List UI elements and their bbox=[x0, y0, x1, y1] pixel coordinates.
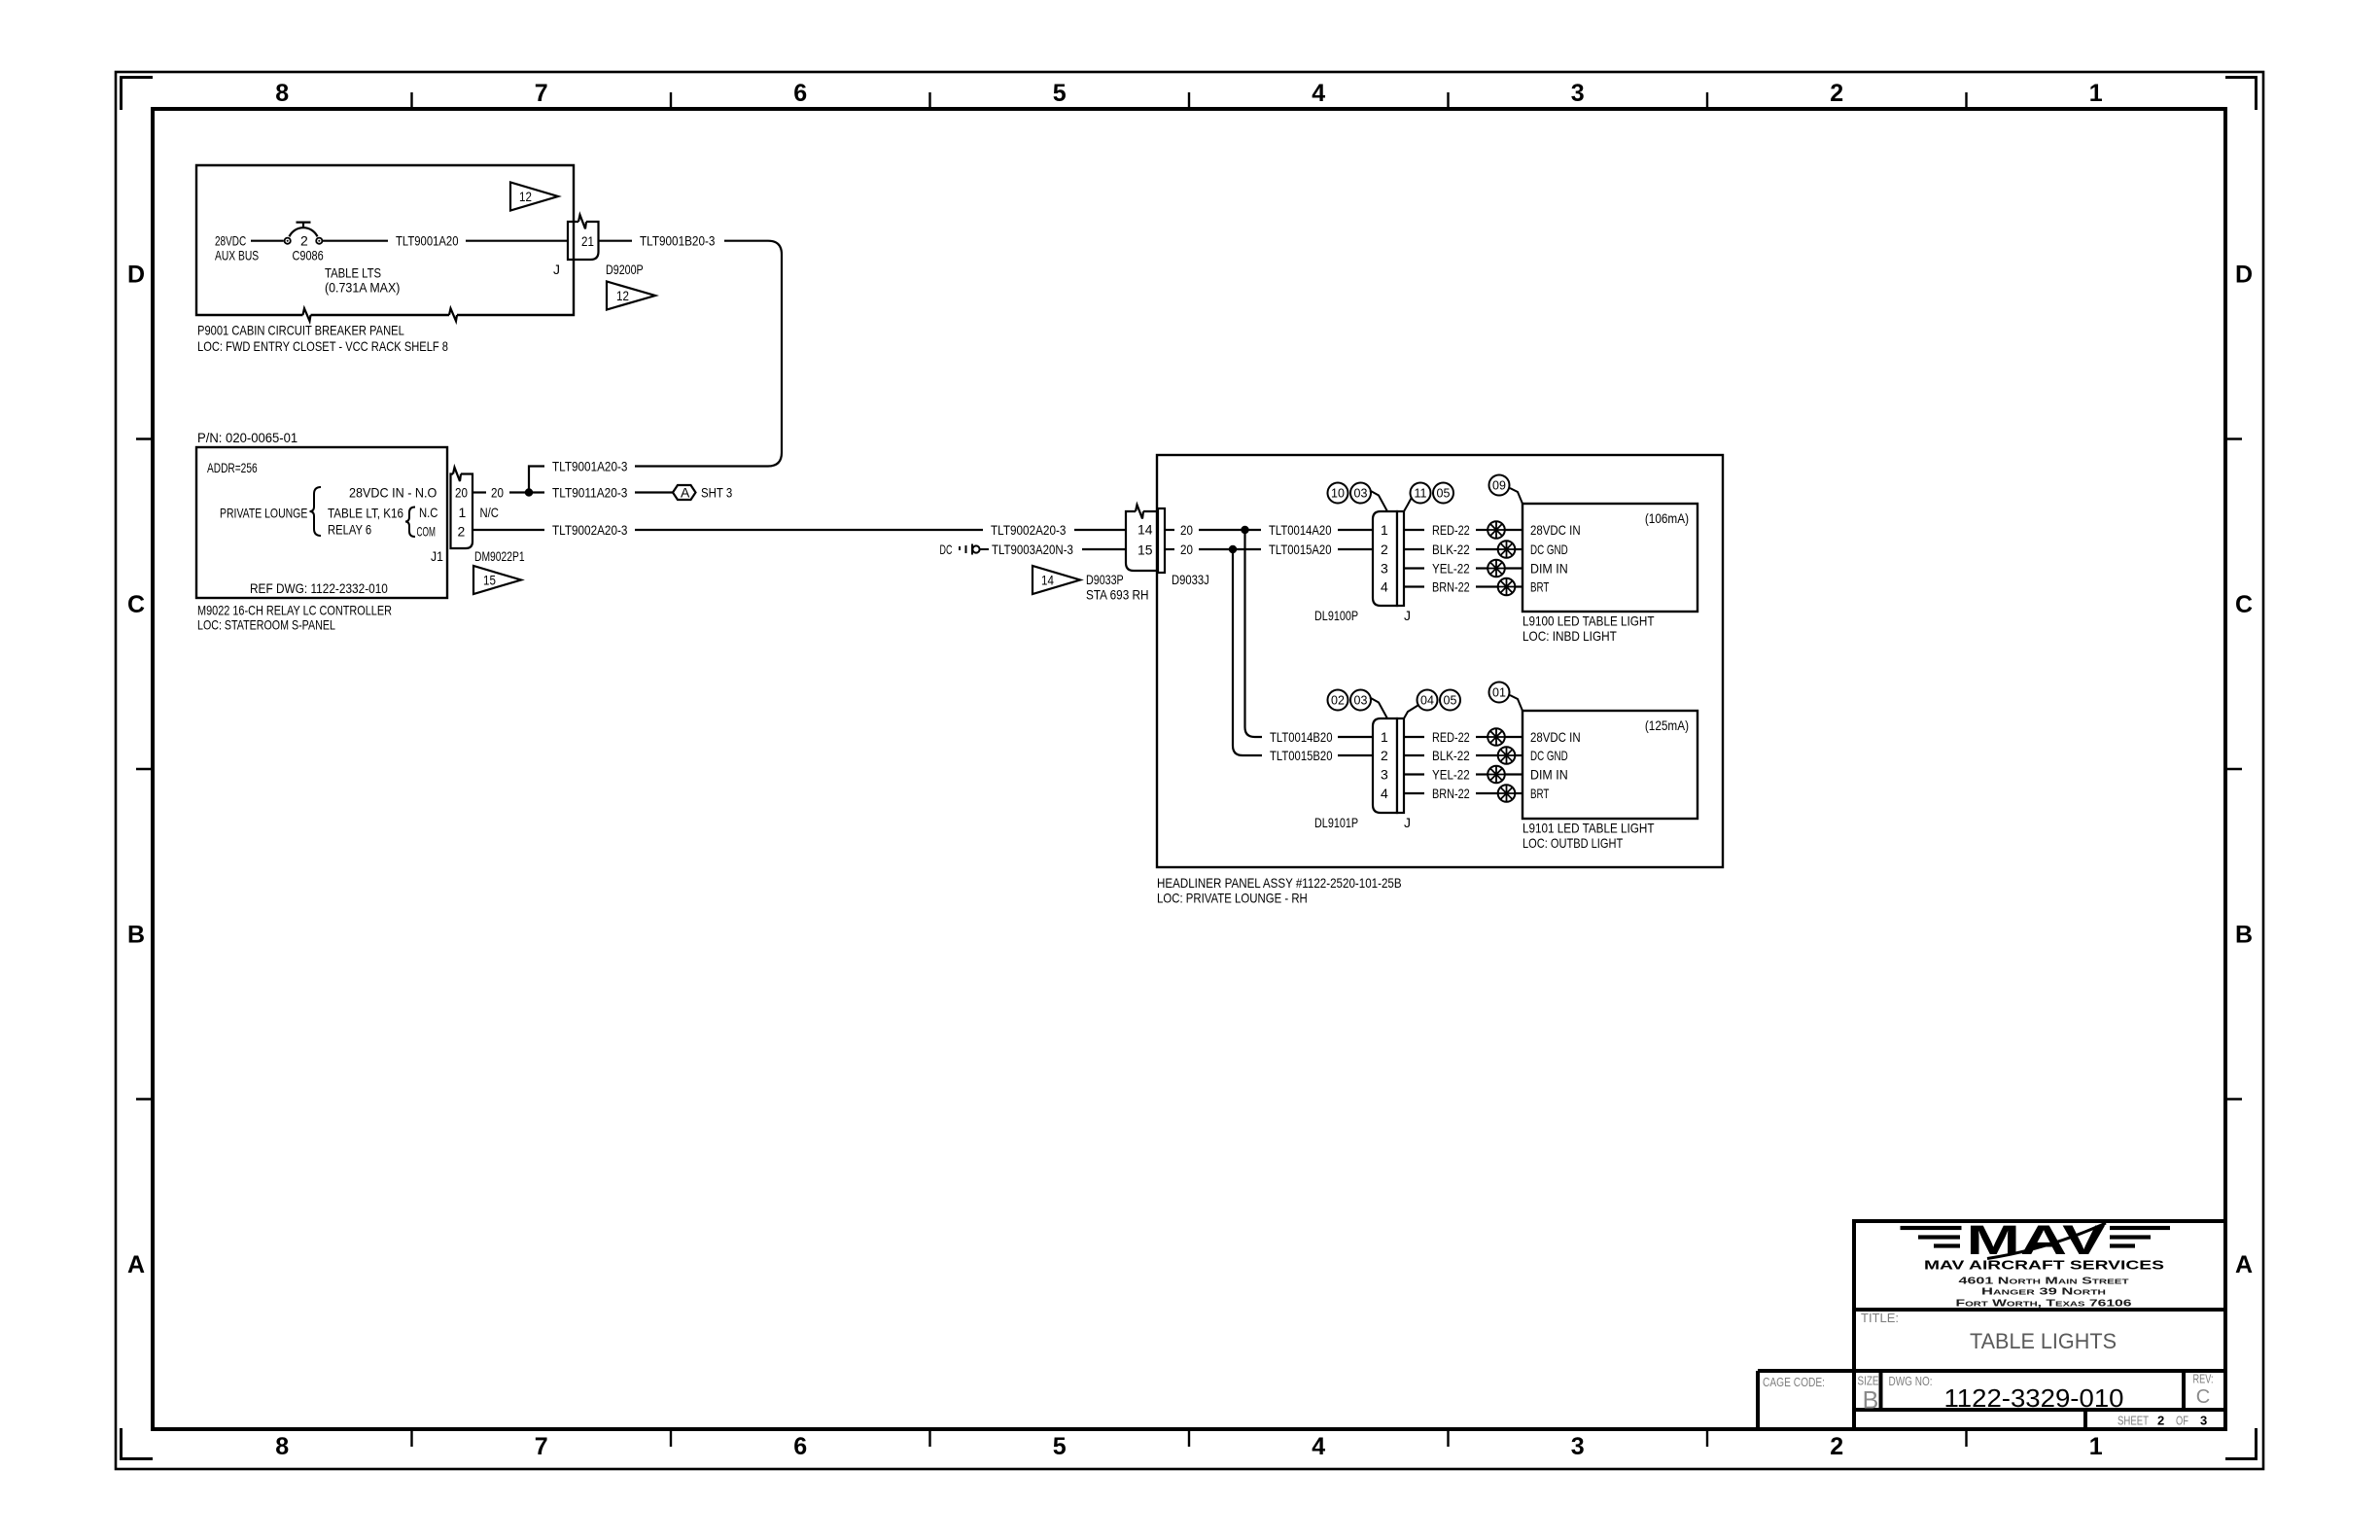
svg-text:20: 20 bbox=[1180, 542, 1193, 557]
svg-text:4: 4 bbox=[1312, 1433, 1325, 1460]
svg-text:TLT9003A20N-3: TLT9003A20N-3 bbox=[992, 542, 1073, 557]
svg-text:7: 7 bbox=[535, 1433, 548, 1460]
svg-text:6: 6 bbox=[793, 1433, 807, 1460]
svg-text:YEL-22: YEL-22 bbox=[1432, 767, 1470, 783]
svg-text:01: 01 bbox=[1492, 686, 1506, 700]
svg-text:1: 1 bbox=[2089, 1433, 2103, 1460]
svg-text:12: 12 bbox=[519, 189, 532, 204]
wire TLT9002A20-3 from pin 2 bbox=[472, 529, 1126, 531]
svg-text:C: C bbox=[2235, 591, 2253, 618]
svg-text:02: 02 bbox=[1331, 694, 1345, 708]
connector jag D9033P bbox=[1136, 505, 1143, 518]
zone ticks right bbox=[2225, 439, 2242, 1100]
wire TLT0014B20 drop bbox=[1245, 530, 1263, 737]
sheet flag 12 (lower) bbox=[607, 282, 655, 310]
wire id circle 09 bbox=[1489, 475, 1510, 496]
inner border frame bbox=[153, 109, 2225, 1429]
svg-text:J: J bbox=[553, 262, 560, 277]
splice on BLK-22 bbox=[1498, 747, 1516, 764]
svg-text:15: 15 bbox=[483, 573, 496, 588]
svg-text:LOC: PRIVATE LOUNGE - RH: LOC: PRIVATE LOUNGE - RH bbox=[1157, 891, 1308, 906]
svg-text:D9033J: D9033J bbox=[1172, 572, 1209, 587]
svg-text:DIM IN: DIM IN bbox=[1530, 767, 1568, 783]
wire id circle 02 bbox=[1328, 690, 1348, 711]
svg-text:14: 14 bbox=[1137, 522, 1153, 538]
svg-text:TITLE:: TITLE: bbox=[1861, 1311, 1899, 1325]
svg-text:J1: J1 bbox=[431, 548, 443, 564]
svg-text:28VDC IN - N.O: 28VDC IN - N.O bbox=[349, 485, 437, 501]
svg-text:3: 3 bbox=[1381, 767, 1388, 783]
svg-text:4: 4 bbox=[1381, 786, 1388, 801]
zone column labels bottom bbox=[275, 1433, 2103, 1460]
svg-text:STA 693 RH: STA 693 RH bbox=[1086, 587, 1149, 603]
leader from circle 04 bbox=[1404, 706, 1418, 719]
svg-text:TLT9002A20-3: TLT9002A20-3 bbox=[991, 522, 1067, 538]
svg-text:D: D bbox=[2235, 262, 2253, 289]
svg-text:SHEET: SHEET bbox=[2117, 1414, 2149, 1428]
svg-text:LOC: FWD ENTRY CLOSET - VCC RA: LOC: FWD ENTRY CLOSET - VCC RACK SHELF 8 bbox=[197, 338, 448, 354]
wire TLT9001A20-3 up from junction bbox=[529, 467, 544, 493]
wire pin15 to DL9100P pin2 bbox=[1165, 548, 1373, 550]
svg-text:TABLE LTS: TABLE LTS bbox=[325, 265, 381, 281]
junction node TLT0015 bbox=[1229, 545, 1237, 553]
svg-text:2: 2 bbox=[1830, 1433, 1843, 1460]
wire id circle 03 bbox=[1350, 690, 1371, 711]
sheet flag 14 bbox=[1032, 566, 1080, 594]
junction node TLT0014 bbox=[1241, 526, 1248, 534]
svg-text:28VDC IN: 28VDC IN bbox=[1530, 729, 1581, 745]
svg-text:D9033P: D9033P bbox=[1086, 572, 1124, 587]
svg-text:BRN-22: BRN-22 bbox=[1432, 579, 1470, 595]
circuit breaker C9086 (2A) bbox=[285, 223, 323, 244]
svg-text:TLT9001A20: TLT9001A20 bbox=[396, 233, 459, 249]
svg-text:2: 2 bbox=[2157, 1414, 2164, 1428]
svg-text:A: A bbox=[127, 1251, 145, 1278]
svg-text:TLT0015A20: TLT0015A20 bbox=[1269, 542, 1332, 557]
svg-text:1: 1 bbox=[459, 505, 467, 520]
svg-text:8: 8 bbox=[275, 1433, 289, 1460]
svg-text:2: 2 bbox=[1830, 80, 1843, 107]
svg-text:BLK-22: BLK-22 bbox=[1432, 542, 1470, 557]
wire TLT9003A20N-3 to pin 15 bbox=[1082, 548, 1126, 550]
wire id circle 04 bbox=[1417, 690, 1438, 711]
corner trim mark bottom-right bbox=[2225, 1428, 2257, 1459]
brace outer bbox=[310, 487, 322, 536]
leader from circle 09 bbox=[1510, 488, 1522, 504]
splice on RED-22 bbox=[1487, 521, 1505, 539]
junction node on pin20 wire bbox=[525, 488, 533, 496]
wire id circle 10 bbox=[1328, 483, 1348, 504]
zone row labels left bbox=[127, 262, 145, 1279]
wire BRN-22 bbox=[1404, 792, 1522, 794]
svg-text:(0.731A MAX): (0.731A MAX) bbox=[325, 280, 400, 296]
svg-text:5: 5 bbox=[1053, 1433, 1067, 1460]
corner trim mark top-left bbox=[122, 78, 154, 111]
svg-text:AUX BUS: AUX BUS bbox=[215, 248, 259, 263]
wire pin20 to junction bbox=[472, 491, 544, 493]
svg-text:28VDC: 28VDC bbox=[215, 233, 246, 249]
connector receptacle D9033J strip bbox=[1158, 508, 1165, 573]
svg-text:20: 20 bbox=[455, 485, 468, 501]
wire TLT0015B20 to DL9101P pin2 bbox=[1338, 754, 1373, 756]
svg-text:03: 03 bbox=[1354, 694, 1368, 708]
zone row labels right bbox=[2235, 262, 2253, 1279]
wire id circle 01 bbox=[1489, 682, 1510, 703]
svg-text:YEL-22: YEL-22 bbox=[1432, 561, 1470, 577]
svg-text:20: 20 bbox=[491, 485, 504, 501]
svg-text:L9101 LED TABLE LIGHT: L9101 LED TABLE LIGHT bbox=[1522, 821, 1655, 836]
svg-text:TLT9011A20-3: TLT9011A20-3 bbox=[552, 485, 628, 501]
connector receptacle strip J (DL9100P) bbox=[1397, 511, 1404, 606]
svg-text:C: C bbox=[2196, 1386, 2210, 1408]
wire RED-22 bbox=[1404, 529, 1522, 531]
svg-text:BLK-22: BLK-22 bbox=[1432, 748, 1470, 763]
svg-text:TABLE LT, K16: TABLE LT, K16 bbox=[328, 506, 403, 521]
panel box headliner panel assy bbox=[1157, 455, 1723, 867]
svg-text:20: 20 bbox=[1180, 522, 1193, 538]
svg-text:3: 3 bbox=[1571, 80, 1585, 107]
svg-text:DWG NO:: DWG NO: bbox=[1889, 1374, 1933, 1388]
panel box P9001 cabin circuit breaker panel bbox=[196, 165, 574, 315]
svg-text:OF: OF bbox=[2176, 1414, 2188, 1428]
title block frame bbox=[1758, 1221, 2225, 1429]
splice on BLK-22 bbox=[1498, 541, 1516, 558]
svg-text:TLT9002A20-3: TLT9002A20-3 bbox=[552, 522, 628, 538]
svg-text:Fort Worth, Texas 76106: Fort Worth, Texas 76106 bbox=[1956, 1298, 2133, 1309]
connector D9033P body pins 14/15 bbox=[1126, 511, 1158, 571]
splice on YEL-22 bbox=[1487, 766, 1505, 784]
sheet label SHEET 2 OF 3 bbox=[2117, 1414, 2207, 1428]
controller name label M9022 16-CH RELAY LC CONTROLLER bbox=[197, 603, 392, 633]
svg-text:05: 05 bbox=[1444, 694, 1457, 708]
svg-text:REF DWG: 1122-2332-010: REF DWG: 1122-2332-010 bbox=[250, 580, 388, 596]
svg-text:11: 11 bbox=[1415, 487, 1427, 501]
sheet flag 15 bbox=[473, 566, 521, 594]
svg-text:B: B bbox=[2235, 922, 2253, 949]
svg-text:15: 15 bbox=[1137, 542, 1153, 558]
svg-text:1: 1 bbox=[1381, 729, 1388, 745]
svg-text:D: D bbox=[127, 262, 145, 289]
svg-text:N/C: N/C bbox=[480, 505, 499, 520]
svg-text:12: 12 bbox=[616, 288, 629, 303]
leader from circle 11 bbox=[1404, 499, 1412, 512]
wire TLT0014B20 to DL9101P pin1 bbox=[1338, 736, 1373, 738]
svg-text:(125mA): (125mA) bbox=[1645, 717, 1689, 733]
zone ticks top bbox=[412, 92, 1967, 109]
svg-text:2: 2 bbox=[1381, 748, 1388, 763]
connector receptacle strip J (DL9101P) bbox=[1397, 718, 1404, 813]
wire TLT9011A20-3 to sheet 3 bbox=[635, 491, 673, 493]
connector plug label D9033P / STA 693 RH bbox=[1086, 572, 1149, 603]
svg-text:1: 1 bbox=[2089, 80, 2103, 107]
wire TLT9001A20 bbox=[323, 240, 568, 242]
sheet flag 12 (upper) bbox=[510, 183, 558, 211]
wire TLT0015B20 drop bbox=[1233, 549, 1262, 755]
svg-text:7: 7 bbox=[535, 80, 548, 107]
break mark left on P9001 box bbox=[303, 308, 311, 321]
svg-text:BRT: BRT bbox=[1530, 579, 1550, 595]
svg-text:HEADLINER PANEL ASSY #1122-252: HEADLINER PANEL ASSY #1122-2520-101-25B bbox=[1157, 875, 1402, 891]
svg-text:TLT0014A20: TLT0014A20 bbox=[1269, 522, 1332, 538]
svg-text:B: B bbox=[127, 922, 145, 949]
wire BLK-22 bbox=[1404, 548, 1522, 550]
svg-text:BRN-22: BRN-22 bbox=[1432, 786, 1470, 801]
off-sheet hexagon node A bbox=[673, 485, 696, 500]
svg-text:04: 04 bbox=[1420, 694, 1434, 708]
svg-text:5: 5 bbox=[1053, 80, 1067, 107]
svg-text:Hanger 39 North: Hanger 39 North bbox=[1981, 1287, 2106, 1298]
zone ticks left bbox=[136, 439, 153, 1100]
controller box M9022 16-CH relay LC controller bbox=[196, 447, 447, 598]
svg-text:REV:: REV: bbox=[2193, 1372, 2214, 1386]
wire BLK-22 bbox=[1404, 754, 1522, 756]
svg-text:2: 2 bbox=[458, 524, 466, 540]
svg-text:TABLE LIGHTS: TABLE LIGHTS bbox=[1970, 1329, 2117, 1353]
node 28VDC AUX BUS bbox=[215, 233, 259, 263]
svg-text:A: A bbox=[2235, 1251, 2253, 1278]
connector DL9100P body bbox=[1373, 511, 1397, 606]
svg-text:B: B bbox=[1863, 1387, 1879, 1415]
svg-text:2: 2 bbox=[1381, 542, 1388, 557]
LED light box L9100 LED TABLE LIGHT bbox=[1522, 504, 1697, 612]
brace inner bbox=[405, 507, 415, 538]
splice on RED-22 bbox=[1487, 728, 1505, 746]
leader from circle 03 bbox=[1370, 698, 1387, 719]
connector jag J1 bbox=[453, 468, 461, 481]
svg-text:2: 2 bbox=[300, 233, 308, 249]
address lines bbox=[1956, 1277, 2133, 1310]
svg-text:21: 21 bbox=[581, 233, 594, 249]
svg-text:J: J bbox=[1404, 608, 1411, 623]
svg-text:1: 1 bbox=[1381, 522, 1388, 538]
svg-text:LOC: INBD LIGHT: LOC: INBD LIGHT bbox=[1522, 628, 1617, 644]
svg-text:3: 3 bbox=[1381, 561, 1388, 577]
svg-text:D9200P: D9200P bbox=[606, 262, 644, 277]
leader from circle 03 bbox=[1370, 491, 1387, 512]
svg-text:N.C: N.C bbox=[419, 505, 437, 520]
svg-text:CAGE CODE:: CAGE CODE: bbox=[1763, 1375, 1825, 1389]
svg-text:DL9101P: DL9101P bbox=[1314, 815, 1358, 830]
svg-text:28VDC IN: 28VDC IN bbox=[1530, 522, 1581, 538]
LED light label L9101 LED TABLE LIGHT bbox=[1522, 821, 1655, 852]
corner trim mark bottom-left bbox=[122, 1428, 154, 1459]
svg-text:(106mA): (106mA) bbox=[1645, 510, 1689, 526]
svg-text:ADDR=256: ADDR=256 bbox=[207, 460, 258, 475]
svg-text:DIM IN: DIM IN bbox=[1530, 561, 1568, 577]
splice on BRN-22 bbox=[1498, 578, 1516, 596]
svg-text:C: C bbox=[127, 591, 145, 618]
leader from circle 01 bbox=[1510, 695, 1522, 711]
svg-text:8: 8 bbox=[275, 80, 289, 107]
svg-text:PRIVATE LOUNGE: PRIVATE LOUNGE bbox=[220, 506, 307, 521]
wire 28VDC to breaker bbox=[251, 240, 284, 242]
svg-text:SHT 3: SHT 3 bbox=[701, 485, 732, 501]
svg-text:L9100 LED TABLE LIGHT: L9100 LED TABLE LIGHT bbox=[1522, 613, 1655, 629]
svg-text:TLT0014B20: TLT0014B20 bbox=[1270, 729, 1333, 745]
wire pin14 to DL9100P pin1 bbox=[1165, 529, 1373, 531]
breaker function label TABLE LTS (0.731A MAX) bbox=[325, 265, 400, 296]
wire BRN-22 bbox=[1404, 585, 1522, 587]
MAV logo bbox=[1901, 1217, 2171, 1264]
svg-text:P/N: 020-0065-01: P/N: 020-0065-01 bbox=[197, 430, 297, 445]
svg-text:03: 03 bbox=[1354, 487, 1368, 501]
svg-text:RELAY 6: RELAY 6 bbox=[328, 522, 371, 538]
panel name label P9001 CABIN CIRCUIT BREAKER PANEL bbox=[197, 323, 448, 355]
svg-text:C9086: C9086 bbox=[293, 248, 324, 263]
svg-text:TLT9001B20-3: TLT9001B20-3 bbox=[640, 233, 716, 249]
wire id circle 11 bbox=[1411, 483, 1431, 504]
LED light box L9101 LED TABLE LIGHT bbox=[1522, 711, 1697, 819]
svg-text:TLT0015B20: TLT0015B20 bbox=[1270, 748, 1333, 763]
connector J1 DM9022P1 body bbox=[451, 474, 473, 549]
svg-text:4: 4 bbox=[1312, 80, 1325, 107]
svg-text:MAV AIRCRAFT SERVICES: MAV AIRCRAFT SERVICES bbox=[1924, 1259, 2164, 1273]
svg-text:LOC: STATEROOM S-PANEL: LOC: STATEROOM S-PANEL bbox=[197, 617, 335, 633]
zone ticks bottom bbox=[412, 1429, 1967, 1447]
svg-text:1122-3329-010: 1122-3329-010 bbox=[1944, 1383, 2124, 1413]
svg-text:DC GND: DC GND bbox=[1530, 542, 1568, 557]
connector DL9101P body bbox=[1373, 718, 1397, 813]
svg-text:10: 10 bbox=[1331, 487, 1345, 501]
splice on YEL-22 bbox=[1487, 560, 1505, 577]
svg-text:DC: DC bbox=[940, 542, 953, 557]
svg-text:DL9100P: DL9100P bbox=[1314, 608, 1358, 623]
svg-text:P9001 CABIN CIRCUIT BREAKER PA: P9001 CABIN CIRCUIT BREAKER PANEL bbox=[197, 323, 404, 338]
wire YEL-22 bbox=[1404, 567, 1522, 569]
wire TLT9001B20-3 going right and down bbox=[599, 241, 782, 467]
svg-text:J: J bbox=[1404, 815, 1411, 830]
wire id circle 05 bbox=[1433, 483, 1453, 504]
svg-text:05: 05 bbox=[1437, 487, 1451, 501]
svg-text:LOC: OUTBD LIGHT: LOC: OUTBD LIGHT bbox=[1522, 835, 1624, 851]
svg-text:SIZE: SIZE bbox=[1858, 1374, 1879, 1388]
wire RED-22 bbox=[1404, 736, 1522, 738]
svg-text:TLT9001A20-3: TLT9001A20-3 bbox=[552, 459, 628, 474]
svg-text:RED-22: RED-22 bbox=[1432, 522, 1470, 538]
LED light label L9100 LED TABLE LIGHT bbox=[1522, 613, 1655, 645]
connector D9200P pin 21 (J) bbox=[568, 215, 599, 260]
wire YEL-22 bbox=[1404, 773, 1522, 775]
wire id circle 05 bbox=[1440, 690, 1460, 711]
svg-text:3: 3 bbox=[1571, 1433, 1585, 1460]
svg-text:DM9022P1: DM9022P1 bbox=[474, 548, 525, 564]
wire id circle 03 bbox=[1350, 483, 1371, 504]
svg-text:COM: COM bbox=[417, 524, 436, 540]
svg-text:RED-22: RED-22 bbox=[1432, 729, 1470, 745]
corner trim mark top-right bbox=[2225, 78, 2257, 111]
zone column labels top bbox=[275, 80, 2103, 107]
break mark right on P9001 box bbox=[449, 308, 457, 321]
svg-text:BRT: BRT bbox=[1530, 786, 1550, 801]
svg-text:09: 09 bbox=[1492, 479, 1506, 493]
svg-text:A: A bbox=[681, 485, 690, 501]
svg-text:14: 14 bbox=[1041, 573, 1054, 588]
svg-text:MAV: MAV bbox=[1967, 1217, 2106, 1264]
svg-text:6: 6 bbox=[793, 80, 807, 107]
svg-text:4: 4 bbox=[1381, 579, 1388, 595]
svg-text:4601 North Main Street: 4601 North Main Street bbox=[1959, 1277, 2130, 1287]
splice on BRN-22 bbox=[1498, 785, 1516, 802]
svg-text:DC GND: DC GND bbox=[1530, 748, 1568, 763]
svg-text:3: 3 bbox=[2200, 1414, 2207, 1428]
svg-text:M9022 16-CH RELAY LC CONTROLLE: M9022 16-CH RELAY LC CONTROLLER bbox=[197, 603, 392, 618]
headliner label HEADLINER PANEL ASSY #1122-2520-101-25B bbox=[1157, 875, 1402, 906]
